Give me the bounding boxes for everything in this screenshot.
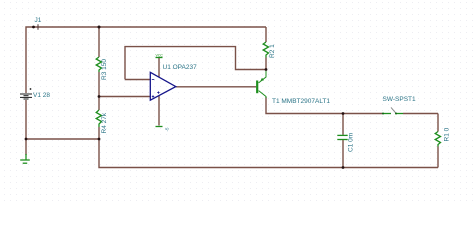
svg-text:C1 0m: C1 0m	[348, 133, 355, 152]
svg-text:U1 OPA237: U1 OPA237	[163, 64, 198, 71]
svg-text:R1 0: R1 0	[444, 127, 451, 141]
svg-text:T1 MMBT2907ALT1: T1 MMBT2907ALT1	[272, 98, 330, 105]
svg-text:-5: -5	[165, 127, 170, 131]
svg-text:R3 150: R3 150	[101, 59, 108, 80]
svg-text:R4 27k: R4 27k	[101, 112, 108, 133]
svg-text:SW-SPST1: SW-SPST1	[383, 96, 416, 103]
svg-text:V1 28: V1 28	[33, 92, 50, 99]
svg-text:R2 1: R2 1	[269, 44, 276, 58]
svg-text:J1: J1	[35, 17, 42, 24]
svg-text:VCC: VCC	[156, 54, 164, 58]
